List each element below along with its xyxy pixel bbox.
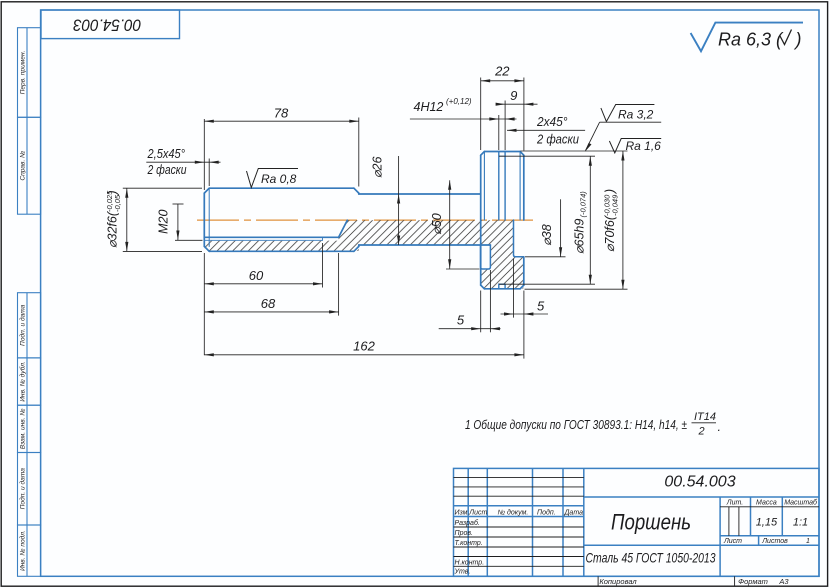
ext chamfer 2.5 [208, 159, 210, 187]
svg-text:00.54.003: 00.54.003 [664, 474, 735, 491]
ext 22/9 right above [523, 78, 525, 151]
ring groove notch in section [499, 284, 505, 289]
ring groove left wall [498, 152, 500, 221]
svg-text:(-0,074): (-0,074) [579, 191, 588, 218]
svg-text:Масса: Масса [756, 499, 777, 506]
svg-text:): ) [603, 189, 617, 195]
svg-text:Лист: Лист [468, 510, 487, 517]
hatch: M20 bore band [205, 220, 359, 251]
left face [203, 193, 205, 246]
svg-text:(+0,12): (+0,12) [446, 97, 472, 106]
svg-text:00.54.003: 00.54.003 [73, 16, 141, 35]
ext 162/5 right face [523, 291, 525, 359]
svg-text:Листов: Листов [761, 538, 788, 545]
flange top generatrix [484, 151, 520, 153]
M20 hole wall [204, 236, 338, 238]
svg-text:22: 22 [494, 63, 510, 78]
ext 68 right [338, 253, 340, 316]
chamfer note 2x45 right [507, 115, 585, 146]
flange chamfer top-left [481, 152, 485, 156]
svg-text:78: 78 [274, 106, 289, 121]
ext d38 [525, 256, 566, 258]
roughness Ra 3,2 with leader [585, 105, 661, 152]
flange chamfer bottom-right [520, 285, 524, 289]
svg-text:Т.контр.: Т.контр. [455, 540, 483, 547]
ext 5b bore [513, 259, 515, 318]
ext d70 bottom [525, 288, 628, 290]
dimension 78 [204, 106, 358, 123]
svg-text:Ra 3,2: Ra 3,2 [618, 107, 654, 121]
svg-text:Взам. инв. №: Взам. инв. № [19, 409, 26, 450]
svg-text:Справ. №: Справ. № [19, 151, 26, 181]
svg-text:Формат: Формат [738, 577, 768, 586]
svg-text:1,15: 1,15 [756, 517, 778, 529]
ext M20 [175, 239, 203, 241]
piston outline: flange d70 [481, 152, 524, 289]
svg-text:Ra 1,6: Ra 1,6 [626, 139, 662, 153]
svg-text:Подп.: Подп. [537, 509, 556, 517]
piston outline: neck d26 [359, 193, 491, 246]
svg-text:⌀38: ⌀38 [540, 224, 554, 245]
centerline (axis) [197, 219, 533, 221]
ext d65 bottom [499, 283, 595, 285]
title block grid [454, 468, 820, 576]
ext d65 top [499, 155, 595, 157]
dimension 60 [204, 268, 322, 285]
flange left face [480, 155, 482, 285]
left margin column strips group 2 [18, 293, 41, 577]
svg-text:Инв. № дубл.: Инв. № дубл. [18, 361, 26, 402]
flange chamfer bottom-left [481, 285, 485, 289]
svg-text:Утв.: Утв. [454, 569, 471, 576]
svg-text:№ докум.: № докум. [498, 509, 529, 517]
roughness Ra 0,8 on d32 [247, 169, 299, 188]
right face upper [523, 155, 525, 220]
ring groove bottom [499, 155, 505, 157]
drill cone [339, 220, 348, 237]
bottom margin strip: Копировал / Формат A3 [598, 576, 789, 586]
d32 chamfer top-right [354, 188, 359, 193]
svg-text:Масштаб: Масштаб [784, 498, 818, 506]
ext 5a recess [489, 270, 491, 332]
svg-text:2: 2 [698, 426, 705, 438]
svg-text:Лист: Лист [723, 538, 742, 545]
svg-text:5: 5 [537, 298, 545, 313]
chamfer circle line [208, 188, 210, 246]
dimension 22 [481, 63, 524, 82]
ext 22 left above [480, 78, 482, 151]
title block texts [454, 474, 819, 576]
d32 bottom generatrix (section) [209, 250, 354, 252]
svg-text:1: 1 [806, 538, 810, 545]
hatch: flange section [480, 220, 523, 288]
dimension d50 [430, 180, 451, 268]
svg-text:Изм.: Изм. [455, 510, 470, 517]
svg-text:Инв. № подл.: Инв. № подл. [18, 530, 26, 571]
roughness Ra 1,6 [609, 139, 661, 153]
dimension 162 [204, 339, 524, 357]
svg-text:-0,05: -0,05 [113, 194, 122, 212]
general tolerance note [465, 411, 721, 438]
dimension d38 [540, 199, 562, 256]
thread end tick [322, 237, 324, 240]
svg-text:2 фаски: 2 фаски [536, 133, 579, 147]
svg-text:.: . [718, 420, 721, 434]
right face lower [523, 257, 525, 285]
step bottom [358, 245, 360, 246]
svg-text:68: 68 [261, 296, 276, 311]
svg-text:Пров.: Пров. [455, 530, 474, 537]
flange chamfer line right [519, 152, 521, 221]
svg-text:Копировал: Копировал [599, 577, 637, 586]
svg-text:⌀26: ⌀26 [371, 157, 385, 178]
svg-text:2,5х45°: 2,5х45° [147, 147, 185, 161]
ext 4H12 left above [498, 115, 500, 150]
flange bottom generatrix (section) [484, 288, 520, 290]
dimension 5 (recess depth) [439, 312, 501, 330]
svg-text:⌀50: ⌀50 [430, 213, 444, 234]
svg-text:): ) [794, 30, 802, 50]
dimension 68 [204, 296, 338, 314]
neck bottom generatrix (section) [359, 244, 491, 246]
dimension M20 [157, 204, 184, 240]
ext d50 [446, 268, 480, 270]
ring groove right wall [504, 152, 506, 221]
svg-text:Дата: Дата [564, 510, 584, 517]
top-left designation box (rotated 00.54.003) [41, 10, 180, 39]
d32 chamfer bottom-left [204, 246, 209, 251]
svg-text:Поршень: Поршень [611, 510, 691, 535]
extension lines [123, 78, 628, 359]
svg-text:⌀32f6(: ⌀32f6( [106, 210, 120, 248]
svg-text:2х45°: 2х45° [536, 115, 567, 129]
step at 78 [358, 192, 360, 195]
ext 60 right [322, 243, 324, 288]
svg-text:⌀65h9: ⌀65h9 [573, 219, 587, 254]
svg-text:⌀70f6(: ⌀70f6( [603, 214, 617, 252]
flange chamfer top-right [520, 152, 524, 156]
dimension d26 [371, 156, 401, 245]
svg-text:Ra 0,8: Ra 0,8 [261, 172, 297, 186]
face relief groove d50 (section void) [481, 245, 491, 269]
svg-text:М20: М20 [157, 209, 171, 233]
svg-text:А3: А3 [778, 577, 789, 586]
M20 thread thin line [204, 239, 322, 241]
svg-text:Н.контр.: Н.контр. [455, 559, 485, 566]
ext 5a flange face [480, 291, 482, 333]
d32 chamfer top-left [204, 188, 209, 193]
svg-text:Разраб.: Разраб. [455, 519, 480, 527]
ext d32 top [123, 187, 202, 189]
svg-text:Подп. и дата: Подп. и дата [18, 304, 26, 346]
ext 9 left above [504, 101, 506, 151]
svg-text:-0,049: -0,049 [611, 194, 620, 216]
flange chamfer line left [483, 152, 485, 221]
hatch: neck section band [359, 220, 481, 244]
ext d70 top [521, 150, 628, 152]
svg-text:Подп. и дата: Подп. и дата [18, 468, 26, 510]
dimension d65h9 [573, 156, 592, 284]
svg-text:2 фаски: 2 фаски [147, 163, 187, 177]
svg-text:60: 60 [249, 268, 264, 283]
svg-text:1:1: 1:1 [793, 517, 808, 529]
dimension 4H12 leader/dim [410, 97, 517, 121]
svg-text:1 Общие допуски по ГОСТ 30893.: 1 Общие допуски по ГОСТ 30893.1: Н14, h1… [465, 418, 687, 432]
svg-text:Лит.: Лит. [726, 499, 743, 506]
d32 top generatrix [209, 187, 354, 189]
svg-text:4Н12: 4Н12 [414, 100, 444, 114]
general roughness Ra 6,3 (top right) [691, 23, 803, 52]
svg-text:Перв. примен.: Перв. примен. [19, 50, 26, 94]
ext left face vertical [203, 119, 205, 190]
ext 78 right [358, 118, 360, 187]
dimension 9 [496, 88, 538, 106]
d32 chamfer bottom-right [354, 246, 359, 251]
dimension d70f6 [603, 151, 625, 289]
bore d38 recess [514, 220, 524, 257]
ext d32 bottom [123, 250, 202, 252]
left margin column strips group 1 [18, 28, 41, 215]
svg-text:Ra 6,3 (: Ra 6,3 ( [718, 30, 784, 50]
dimension 5 (bore depth) [501, 298, 549, 315]
svg-text:9: 9 [510, 88, 517, 103]
svg-text:162: 162 [353, 339, 375, 354]
chamfer note 2,5x45 left [146, 147, 220, 177]
piston outline: left cylinder d32 [204, 188, 358, 251]
svg-text:IT14: IT14 [694, 411, 716, 423]
svg-text:Сталь 45 ГОСТ 1050-2013: Сталь 45 ГОСТ 1050-2013 [586, 550, 716, 566]
dimension d32f6 [105, 188, 128, 251]
neck top generatrix [359, 193, 481, 195]
svg-text:5: 5 [457, 312, 465, 327]
